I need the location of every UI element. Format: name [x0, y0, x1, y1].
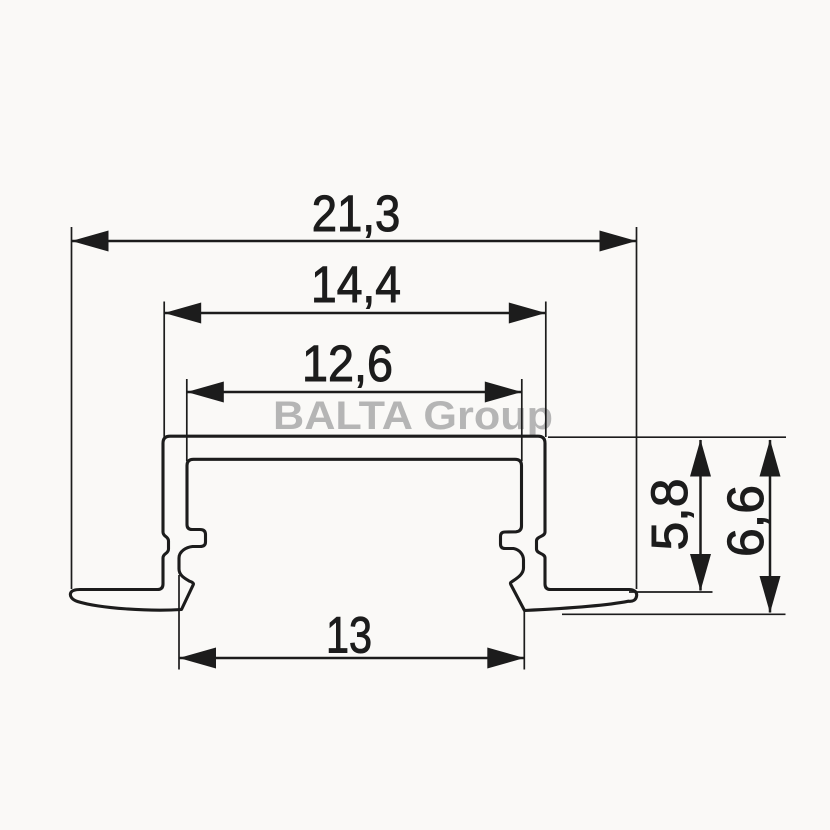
dimension 6,6 line with arrowheads	[760, 440, 781, 614]
svg-text:21,3: 21,3	[312, 185, 401, 242]
height datum extension lines (top, wing top, wing bottom)	[548, 437, 786, 614]
dimension 14,4 extension lines	[164, 302, 546, 438]
svg-text:6,6: 6,6	[717, 485, 774, 557]
dimension 13 extension lines	[179, 575, 524, 670]
svg-text:5,8: 5,8	[641, 479, 698, 551]
dimension 12,6 extension lines	[187, 379, 522, 461]
svg-text:14,4: 14,4	[311, 256, 401, 313]
dimension 14,4 line with arrowheads	[164, 303, 546, 324]
svg-text:13: 13	[326, 607, 372, 664]
LED profile cross-section outline	[70, 436, 636, 610]
dimension 5,8 line with arrowheads	[690, 440, 711, 592]
dimension 13 line with arrowheads	[179, 648, 524, 669]
dimension 21,3 line with arrowheads	[72, 231, 637, 252]
dimension 21,3 extension lines	[72, 227, 637, 589]
dimension 12,6 line with arrowheads	[187, 382, 522, 403]
svg-text:BALTA Group: BALTA Group	[273, 394, 553, 438]
svg-text:12,6: 12,6	[302, 335, 393, 392]
